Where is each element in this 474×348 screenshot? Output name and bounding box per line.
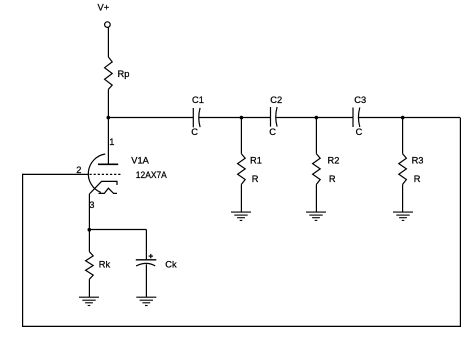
svg-text:Ck: Ck xyxy=(165,260,177,270)
svg-text:C2: C2 xyxy=(270,95,282,105)
svg-text:C1: C1 xyxy=(192,95,204,105)
svg-text:R: R xyxy=(329,174,336,184)
svg-text:R: R xyxy=(252,174,259,184)
svg-text:C3: C3 xyxy=(354,95,366,105)
svg-text:Rp: Rp xyxy=(118,69,130,79)
svg-text:R1: R1 xyxy=(250,156,262,166)
svg-text:Rk: Rk xyxy=(99,260,111,270)
svg-text:R3: R3 xyxy=(412,156,424,166)
svg-text:V+: V+ xyxy=(98,3,110,13)
svg-text:V1A: V1A xyxy=(131,155,149,165)
svg-text:2: 2 xyxy=(76,165,81,175)
svg-text:1: 1 xyxy=(109,137,114,147)
svg-text:R2: R2 xyxy=(328,156,340,166)
svg-text:12AX7A: 12AX7A xyxy=(136,170,168,180)
svg-text:C: C xyxy=(269,127,276,137)
svg-text:C: C xyxy=(191,127,198,137)
svg-text:3: 3 xyxy=(89,200,94,210)
svg-text:C: C xyxy=(356,127,363,137)
svg-text:R: R xyxy=(414,174,421,184)
